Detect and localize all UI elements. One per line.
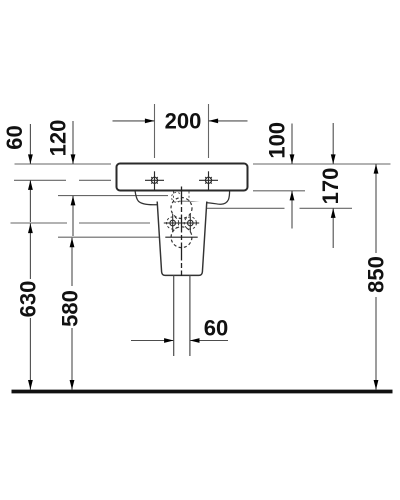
svg-text:850: 850 [364, 256, 389, 293]
floor line [12, 390, 393, 394]
extension line fixing holes left 2 [79, 222, 150, 224]
dimension 60 bottom right arrow [190, 338, 228, 343]
dimension 100 vertical [290, 124, 295, 229]
svg-text:120: 120 [45, 120, 70, 157]
extension line drain axis [199, 207, 285, 209]
washbasin body [117, 164, 248, 191]
dimension 170 vertical [331, 123, 336, 248]
dimension 630 vertical [28, 224, 33, 390]
svg-text:580: 580 [58, 290, 83, 327]
svg-text:200: 200 [165, 108, 202, 133]
drain pipe right line [189, 275, 191, 356]
svg-text:630: 630 [16, 281, 41, 318]
dimension 200 left arrow [113, 119, 155, 124]
dimension 200 extension right [208, 104, 210, 158]
svg-text:60: 60 [2, 125, 27, 149]
extension line rim top right [253, 163, 391, 165]
fixing hole right [184, 214, 196, 232]
svg-text:100: 100 [265, 122, 290, 159]
fixing hole left [167, 214, 179, 232]
extension line apron edge left [58, 195, 168, 197]
fixing holes axis line [164, 222, 199, 224]
extension line tap-hole axis left [14, 179, 66, 181]
extension line rim top left [15, 163, 112, 165]
dimension 850 vertical [374, 164, 379, 390]
tap hole right [199, 171, 218, 189]
svg-text:60: 60 [204, 315, 228, 340]
svg-text:170: 170 [318, 168, 343, 205]
hidden overflow dashes [172, 192, 190, 204]
drain pipe left line [173, 275, 175, 356]
dimension 60 bottom left arrow [131, 338, 174, 343]
center line [181, 187, 183, 277]
dimension 120 vertical [71, 121, 76, 236]
dimension 60 left vertical [28, 124, 33, 222]
basin apron [135, 191, 230, 205]
extension line basin bottom right [253, 190, 305, 192]
pedestal [157, 202, 207, 276]
dimension 200 right arrow [209, 119, 248, 124]
extension line siphon axis left [58, 236, 159, 238]
drain circle [171, 198, 192, 219]
dimension 580 vertical [70, 238, 75, 390]
tap hole left [145, 171, 164, 189]
extension line fixing holes left [11, 222, 68, 224]
siphon axis arm [165, 236, 197, 238]
extension line drain axis 2 [300, 207, 353, 209]
dimension 200 extension left [154, 104, 156, 158]
extension line tap-hole axis left 2 [79, 179, 111, 181]
siphon outlet circle [171, 227, 192, 248]
